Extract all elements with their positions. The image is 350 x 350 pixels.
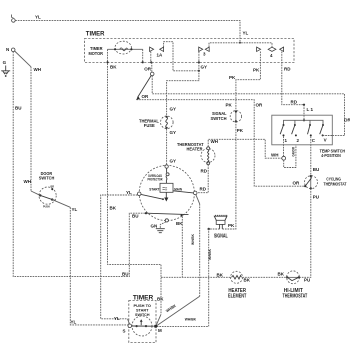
svg-text:SWITCH: SWITCH (211, 116, 228, 121)
thermostat heater R2 (177, 142, 215, 165)
svg-text:OR: OR (344, 118, 350, 123)
temp switch S3 4-position (272, 115, 333, 145)
svg-text:BK: BK (217, 273, 224, 278)
timer motor M1 (89, 41, 143, 56)
svg-text:BK: BK (157, 297, 164, 302)
node WH terminal circle (271, 153, 286, 161)
svg-text:PROTECTOR: PROTECTOR (148, 177, 164, 181)
svg-text:HEATER: HEATER (187, 147, 204, 152)
contact 1A (150, 47, 164, 57)
node pivot OR (150, 72, 154, 76)
wire PU cycling thermostat to hi-limit (300, 188, 319, 282)
wire WH/BK motor to push-start M diagonal (156, 195, 200, 327)
svg-text:PK: PK (237, 128, 244, 133)
label PUSH TO START SWITCH (134, 304, 152, 317)
wire YL from L to timer box (15, 15, 248, 43)
svg-text:RD: RD (291, 100, 298, 105)
ground GN at motor (151, 222, 166, 233)
wire WH/BK speaker to push-start M (156, 228, 220, 327)
svg-text:YL: YL (71, 320, 77, 325)
label TEMP SWITCH 4-POSITION (320, 148, 346, 158)
svg-text:SWITCH: SWITCH (39, 175, 55, 180)
svg-text:WH/BK: WH/BK (185, 317, 196, 322)
svg-text:BK: BK (110, 65, 117, 70)
svg-text:RD: RD (284, 67, 291, 72)
wire WH from N to door switch (15, 51, 41, 195)
svg-text:SIGNAL: SIGNAL (214, 233, 228, 239)
node L1 (304, 105, 313, 121)
svg-text:OR: OR (142, 94, 150, 99)
svg-text:PU: PU (313, 195, 319, 200)
svg-text:GN: GN (151, 224, 158, 229)
svg-text:THERMOSTAT: THERMOSTAT (324, 181, 347, 186)
svg-text:PK: PK (253, 68, 260, 73)
wire OR upper bus from pivot to temp switch V (152, 76, 350, 136)
wire YL door switch to push-start S (52, 200, 128, 325)
door switch S1 (39, 171, 56, 209)
svg-text:L: L (11, 13, 14, 18)
svg-text:RD: RD (201, 169, 208, 174)
svg-text:TIMER: TIMER (86, 31, 105, 38)
wire RD contact 4 right stem to L1 (282, 52, 305, 106)
terminal N (6, 47, 15, 52)
wire PK signal switch to speaker (222, 121, 243, 229)
svg-text:MOTOR: MOTOR (89, 51, 104, 56)
node M (154, 325, 162, 333)
timer box (85, 39, 295, 63)
wire WH thermostat heater to temp switch 1 (208, 139, 282, 158)
wire temp switch V to right edge (joins OR bus) (323, 135, 333, 137)
svg-text:BK: BK (244, 278, 251, 283)
svg-text:PK: PK (226, 102, 233, 107)
svg-text:N: N (6, 47, 9, 52)
svg-text:OR: OR (256, 103, 264, 108)
svg-text:1A: 1A (157, 53, 164, 58)
svg-text:PUSH: PUSH (43, 206, 50, 209)
svg-text:SWITCH: SWITCH (135, 313, 150, 317)
svg-text:PUSH TO: PUSH TO (134, 304, 152, 308)
label HI-LIMIT THERMOSTAT (283, 288, 308, 300)
contact 3 (199, 47, 210, 56)
heater element R1 (231, 271, 251, 283)
svg-text:WH: WH (211, 139, 219, 144)
svg-text:GY: GY (201, 65, 208, 70)
wire BK heater feed line (161, 273, 230, 278)
label HEATER ELEMENT (228, 288, 247, 300)
svg-text:M: M (158, 328, 162, 333)
signal switch S2 (211, 110, 242, 122)
svg-text:S: S (123, 329, 126, 334)
wire BK heater element to hi-limit (243, 276, 287, 278)
wire GN/OR jog node to temp switch 2 (284, 145, 296, 168)
svg-text:OR: OR (144, 67, 152, 72)
wire RD thermostat heater to motor (197, 165, 208, 193)
svg-text:V: V (324, 138, 327, 143)
svg-text:PK: PK (228, 223, 235, 228)
svg-text:RD: RD (200, 187, 207, 192)
terminal L (11, 13, 15, 22)
svg-text:WH: WH (271, 153, 279, 158)
svg-text:ELEMENT: ELEMENT (228, 294, 247, 300)
svg-text:4-POSITION: 4-POSITION (321, 153, 341, 158)
svg-text:BU: BU (122, 272, 129, 277)
svg-text:WH/BK: WH/BK (190, 234, 195, 245)
wire OR lower bus from arm tip to cycling thermostat (137, 100, 305, 187)
svg-text:WH: WH (34, 67, 42, 72)
svg-text:L 1: L 1 (307, 107, 314, 112)
svg-text:BR: BR (51, 186, 55, 189)
svg-text:GY: GY (170, 107, 177, 112)
contact 4 (257, 47, 284, 58)
contact arm OR with tip (136, 75, 151, 100)
wire 1A left stem to pivot (150, 52, 152, 73)
wire BK motor centrifugal to heater line (176, 216, 183, 277)
wire GY contact 3 left stem to thermal fuse (167, 52, 207, 117)
push-to-start switch box (129, 301, 156, 343)
svg-text:YL: YL (126, 190, 132, 195)
svg-text:BU: BU (15, 106, 22, 111)
wire GY thermal fuse to motor (167, 129, 176, 165)
svg-text:OR: OR (293, 181, 301, 186)
svg-text:TIMER: TIMER (133, 294, 154, 301)
wire YL bus inside timer box (209, 42, 272, 47)
cycling thermostat S4 (304, 175, 347, 189)
wire timer motor right lead (142, 49, 152, 71)
svg-text:GN/OR: GN/OR (292, 146, 296, 156)
wire YL motor to push-start S (101, 195, 138, 324)
ground G (1, 60, 10, 77)
svg-text:BK: BK (176, 221, 183, 226)
svg-text:PU: PU (304, 278, 310, 283)
wire temp switch 1 to WH node (283, 136, 285, 156)
wire BU from N down-left column to motor (13, 52, 145, 277)
svg-text:GY: GY (170, 130, 177, 135)
motor M2 (137, 165, 197, 222)
push-to-start switch S6 (128, 316, 154, 336)
thermal fuse F1 (139, 116, 173, 129)
hi-limit thermostat S5 (286, 271, 300, 284)
svg-text:YL: YL (72, 207, 78, 212)
svg-text:BK: BK (278, 272, 285, 277)
signal speaker LS1 (214, 215, 228, 240)
svg-text:START: START (149, 187, 160, 191)
svg-text:WH/BK: WH/BK (207, 249, 212, 260)
svg-text:YL: YL (114, 316, 120, 321)
svg-text:BU: BU (132, 214, 139, 219)
wire BK timer motor left lead (106, 49, 117, 69)
svg-text:THERMOSTAT: THERMOSTAT (283, 294, 308, 300)
svg-text:GY: GY (170, 159, 177, 164)
svg-text:YL: YL (35, 15, 41, 20)
svg-text:BK: BK (110, 206, 117, 211)
svg-text:FUSE: FUSE (144, 123, 155, 128)
svg-text:YL: YL (243, 31, 249, 36)
wire 1A right stem up-over to GY node (164, 42, 200, 72)
svg-text:PK: PK (229, 75, 236, 80)
svg-text:WH: WH (24, 179, 32, 184)
wire PK contact 4 left stem to signal switch (226, 52, 261, 111)
svg-text:BU: BU (313, 167, 320, 172)
wire BK timer motor column to M and heater (108, 63, 165, 326)
wire BU temp switch C to cycling thermostat (311, 136, 320, 175)
svg-text:G: G (3, 60, 7, 65)
svg-text:START: START (136, 308, 149, 312)
